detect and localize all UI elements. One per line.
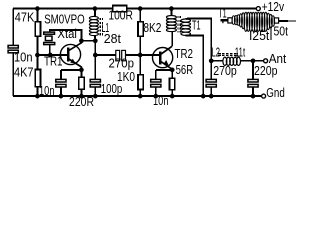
terminal Gnd xyxy=(262,94,266,98)
T1 detail drawing left stub xyxy=(220,18,232,23)
svg-text:28t: 28t xyxy=(104,31,122,46)
wire coupling cap left xyxy=(95,54,116,56)
svg-text:220p: 220p xyxy=(254,63,278,78)
T1 detail drawing right stub xyxy=(274,18,296,23)
crystal Xtal xyxy=(44,32,55,45)
capacitor 10n TR2 emitter xyxy=(151,79,161,87)
wire 220R top xyxy=(80,70,82,77)
transistor TR2 emitter arrow xyxy=(164,60,169,65)
wire 220p bottom stub xyxy=(252,87,254,96)
wire 8K2 top xyxy=(139,9,141,22)
core T1 xyxy=(178,16,180,33)
svg-text:220R: 220R xyxy=(69,94,94,109)
svg-text:270p: 270p xyxy=(213,63,237,78)
wire 1K0 bottom xyxy=(139,90,141,97)
wire 4K7 bottom xyxy=(36,87,38,96)
T1 detail drawing winding taper left xyxy=(232,13,245,29)
transistor TR1 xyxy=(60,41,81,70)
svg-text:10n: 10n xyxy=(153,93,169,108)
resistor 56R xyxy=(170,78,175,90)
wire left branch lower xyxy=(12,53,14,96)
svg-text:25t: 25t xyxy=(252,28,269,43)
capacitor 270p output xyxy=(206,79,216,87)
capacitor 220p output xyxy=(248,79,258,87)
wire TR2 10n cap stub xyxy=(155,70,157,80)
terminal Ant xyxy=(264,59,268,63)
capacitor 10n TR1 emitter xyxy=(56,79,66,87)
transformer T1 secondary winding xyxy=(181,19,191,35)
transformer T1 primary winding xyxy=(166,16,176,32)
wire 4K7 top xyxy=(36,55,38,70)
wire left branch upper xyxy=(12,9,14,46)
svg-text:Gnd: Gnd xyxy=(266,85,285,100)
svg-text:Xtal: Xtal xyxy=(57,26,77,41)
wire xtal bottom stub xyxy=(49,45,51,55)
wire 270p bottom stub xyxy=(210,87,212,96)
svg-text:T1: T1 xyxy=(218,5,227,20)
resistor 100R xyxy=(113,6,127,12)
svg-text:SM0VPO: SM0VPO xyxy=(44,11,84,26)
capacitor 100p tank xyxy=(90,79,100,87)
wire 10n emitter cap stub xyxy=(60,70,62,80)
wire L1 bottom tail xyxy=(94,35,96,41)
wire 56R bottom xyxy=(171,90,173,96)
wire collector node to L1 xyxy=(81,40,95,42)
svg-text:11t: 11t xyxy=(235,44,246,59)
svg-text:L2: L2 xyxy=(212,44,221,59)
inductor L2 11t winding xyxy=(223,57,241,65)
T1 detail drawing winding taper right xyxy=(267,13,275,29)
wire L2 input xyxy=(211,60,223,62)
svg-text:47K: 47K xyxy=(15,10,35,25)
wire T1 secondary bottom to ground xyxy=(186,36,204,97)
svg-text:10n: 10n xyxy=(14,50,33,65)
wire TR2 emitter left xyxy=(156,69,172,71)
svg-text:T1: T1 xyxy=(192,17,201,32)
resistor 220R xyxy=(79,77,84,89)
wire TR2 10n cap bottom stub xyxy=(155,87,157,96)
wire T1 secondary top to L2 node xyxy=(186,19,212,61)
T1 detail drawing winding tall middle xyxy=(244,12,267,31)
resistor 47K xyxy=(35,22,40,36)
capacitor 10n decoupling left xyxy=(8,45,18,52)
resistor 4K7 xyxy=(35,70,40,87)
svg-text:4K7: 4K7 xyxy=(14,65,34,80)
svg-text:1K0: 1K0 xyxy=(117,69,135,84)
wire TR1 emitter left xyxy=(61,69,82,71)
wire 47K bottom to base node xyxy=(36,36,38,55)
wire coupling cap right to TR2 base xyxy=(125,54,160,56)
wire ground bottom rail xyxy=(13,95,262,97)
wire 47K top xyxy=(36,9,38,22)
resistor 1K0 xyxy=(138,75,143,90)
wire tank column down xyxy=(94,41,96,80)
wire 220R bottom xyxy=(80,89,82,96)
capacitor 270p coupling xyxy=(116,50,126,60)
wire 56R top xyxy=(171,70,173,78)
wire 220p stub xyxy=(252,61,254,80)
wire +12v top rail xyxy=(13,8,256,10)
core L2 xyxy=(218,53,238,55)
resistor 8K2 xyxy=(138,22,143,36)
wire L2 output to antenna node xyxy=(241,60,254,62)
wire TR2 collector up to T1 primary xyxy=(171,31,173,46)
wire antenna node to terminal xyxy=(253,60,263,62)
wire base line TR1 xyxy=(37,54,68,56)
wire 10n emitter cap bottom stub xyxy=(60,87,62,96)
svg-text:TR1: TR1 xyxy=(44,53,63,68)
svg-text:50t: 50t xyxy=(274,23,289,38)
T1 detail drawing winding wire ends xyxy=(251,27,271,41)
wire xtal top stub and feedback to collector node xyxy=(50,30,82,41)
core L1 xyxy=(100,18,102,36)
wire 8K2 bottom xyxy=(139,36,141,55)
terminal +12v xyxy=(256,7,260,11)
wire 270p stub xyxy=(210,61,212,80)
wire 1K0 top xyxy=(139,55,141,75)
svg-text:TR2: TR2 xyxy=(175,46,194,61)
wire 100p bottom stub xyxy=(94,87,96,96)
inductor L1 28t xyxy=(89,16,98,35)
wire T1 primary top stub xyxy=(170,9,172,16)
svg-text:8K2: 8K2 xyxy=(143,20,161,35)
svg-text:+12v: +12v xyxy=(262,0,285,14)
svg-text:10n: 10n xyxy=(39,83,55,98)
svg-text:56R: 56R xyxy=(176,62,194,77)
svg-text:100R: 100R xyxy=(108,8,132,23)
wire L1 top stub xyxy=(94,9,96,17)
transistor TR1 emitter arrow xyxy=(70,59,75,64)
transistor TR2 xyxy=(153,46,173,70)
